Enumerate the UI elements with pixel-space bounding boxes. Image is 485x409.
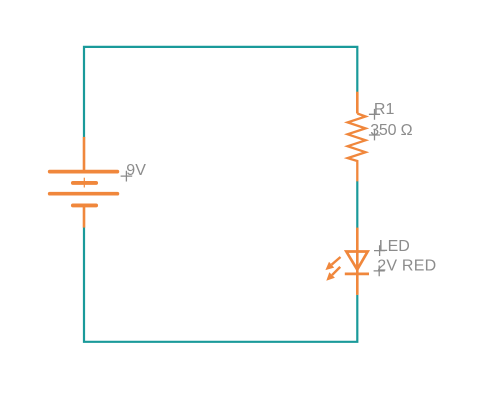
svg-text:R1: R1 — [374, 101, 395, 118]
svg-text:2V RED: 2V RED — [377, 258, 436, 275]
svg-text:350 Ω: 350 Ω — [370, 122, 412, 139]
svg-text:LED: LED — [379, 238, 410, 255]
svg-text:9V: 9V — [126, 162, 146, 179]
